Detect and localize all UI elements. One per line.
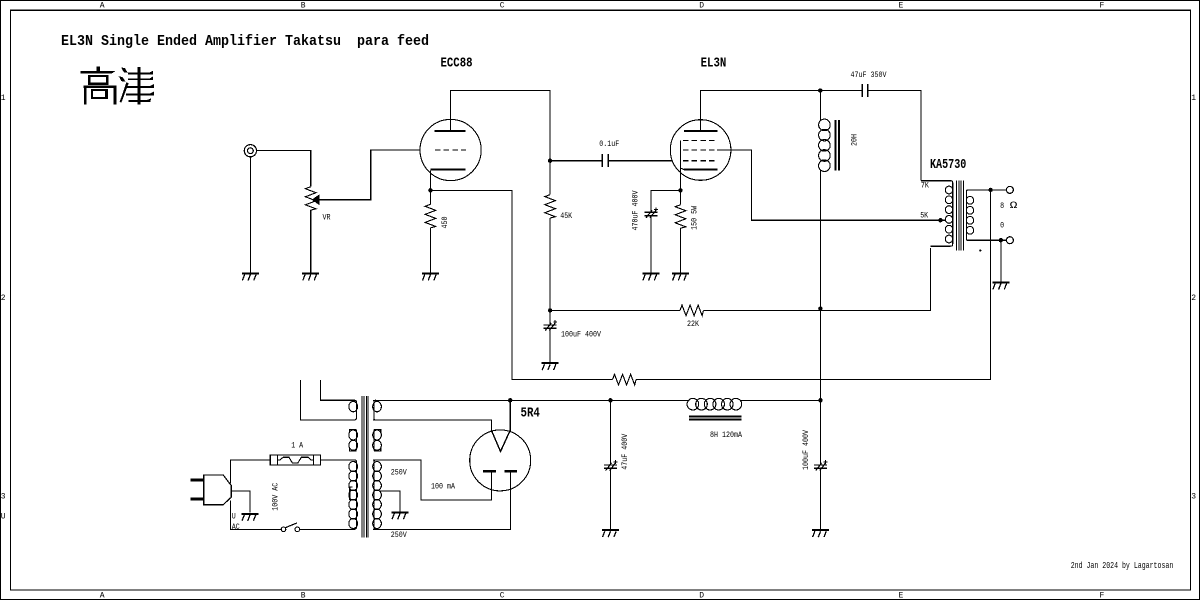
svg-text:E: E: [899, 592, 904, 600]
ground 470uF: [642, 272, 659, 274]
node OPT 8ohm: [988, 188, 992, 192]
capacitor 0.1uF coupling: [602, 154, 608, 167]
wire plug earth to ground: [231, 491, 250, 513]
svg-text:1: 1: [1191, 94, 1196, 103]
wire 22K node to 22K resistor: [550, 309, 680, 311]
tube 5R4 rectifier U3: [470, 430, 531, 491]
svg-text:AC: AC: [232, 523, 240, 532]
svg-text:100uF 400V: 100uF 400V: [561, 330, 601, 339]
output terminal 8 ohm: [1006, 186, 1013, 193]
power transformer primary winding: [354, 460, 356, 529]
node ECC88 plate coupling: [548, 159, 552, 163]
svg-text:8: 8: [1000, 202, 1004, 211]
mains plug: [191, 475, 232, 505]
svg-text:EL3N: EL3N: [701, 56, 727, 72]
node 22K right rail: [818, 306, 822, 310]
svg-text:F: F: [1100, 592, 1105, 600]
choke 20H parafeed: [819, 119, 839, 171]
svg-text:KA5730: KA5730: [930, 157, 966, 173]
tube EL3N U2: [670, 120, 731, 181]
svg-text:8H 120mA: 8H 120mA: [710, 431, 742, 440]
wire VR wiper to ECC88 grid: [319, 150, 421, 200]
node ECC88 cathode: [428, 188, 432, 192]
svg-text:0: 0: [1000, 221, 1004, 230]
svg-text:20H: 20H: [851, 134, 860, 146]
svg-text:2nd Jan 2024 by Lagartosan: 2nd Jan 2024 by Lagartosan: [1071, 561, 1174, 571]
svg-text:5R4: 5R4: [521, 406, 541, 422]
output transformer core: [957, 180, 964, 250]
capacitor 100uF 400V psu filter: [814, 460, 828, 471]
svg-text:A: A: [100, 1, 105, 10]
wire OPT 0ohm to ground: [1000, 240, 1002, 282]
svg-text:2: 2: [1191, 294, 1196, 303]
svg-text:450: 450: [441, 216, 450, 228]
wire switch to primary bottom: [300, 528, 355, 530]
svg-text:EL3N Single Ended Amplifier Ta: EL3N Single Ended Amplifier Takatsu para…: [61, 32, 429, 50]
input jack J1: [244, 145, 256, 157]
svg-text:VR: VR: [323, 213, 331, 222]
output transformer primary winding: [951, 181, 953, 247]
fuse 1A: [270, 455, 320, 465]
resistor 45K plate load: [545, 195, 556, 219]
node OPT 0ohm: [999, 238, 1003, 242]
svg-text:22K: 22K: [687, 320, 699, 329]
power transformer HV secondary winding: [374, 460, 376, 529]
wire 47uF400V to ground: [609, 400, 611, 530]
potentiometer VR resistor body: [305, 187, 316, 211]
ground 150 5W: [672, 272, 689, 274]
svg-text:A: A: [100, 592, 105, 600]
tube ECC88 U1: [420, 119, 481, 180]
wire node to 0.1uF left plate: [550, 160, 602, 162]
svg-text:0.1uF: 0.1uF: [599, 140, 619, 149]
ground 100uF 400V preamp: [542, 362, 559, 364]
wire VR bottom to ground: [310, 210, 312, 273]
node EL3N plate B+: [818, 88, 822, 92]
svg-text:C: C: [500, 592, 505, 600]
svg-text:B: B: [301, 1, 306, 10]
svg-text:3: 3: [1191, 493, 1196, 502]
ground 100uF 400V psu: [812, 529, 829, 531]
wire B+ rail: [373, 399, 821, 401]
ground OPT 0ohm: [992, 281, 1009, 283]
capacitor 47uF 350V parafeed: [862, 84, 867, 97]
wire plug neutral to switch: [231, 500, 282, 529]
svg-text:45K: 45K: [560, 212, 572, 221]
svg-text:5K: 5K: [920, 211, 928, 220]
svg-text:470uF 400V: 470uF 400V: [631, 190, 640, 230]
wire ECC88 cathode to 450 and feedback: [430, 171, 990, 380]
output transformer KA5730 T2: [921, 180, 974, 250]
wire OPT secondary 8ohm lead: [966, 189, 1006, 191]
svg-text:1: 1: [1, 94, 6, 103]
power transformer core: [362, 396, 368, 538]
power transformer primary tap link: [350, 487, 353, 499]
wire jack sleeve to ground: [249, 157, 251, 274]
wire plug line to fuse: [231, 460, 271, 484]
choke 8H 120mA psu: [687, 398, 742, 419]
ground plug earth: [241, 513, 258, 515]
wire 22K resistor to OPT primary bottom: [703, 248, 930, 310]
svg-text:100uF 400V: 100uF 400V: [802, 430, 811, 470]
ground HV center tap: [391, 511, 408, 513]
power transformer T1: [349, 396, 382, 538]
capacitor 47uF 400V psu filter: [604, 460, 618, 471]
resistor 450 cathode ECC88: [425, 204, 436, 228]
svg-text:D: D: [699, 1, 704, 10]
wire EL3N plate to B+ node: [701, 91, 821, 132]
wire 5R4 filament left lead: [373, 420, 492, 430]
wire heater winding lead B: [320, 380, 354, 400]
wire 5R4 filament right to B+: [509, 400, 511, 430]
power transformer unused winding left: [354, 429, 356, 451]
svg-text:ECC88: ECC88: [441, 56, 473, 72]
node 100uF400V tap: [818, 398, 822, 402]
wire 100uF400V cap to ground lead: [549, 328, 551, 363]
power transformer heater winding left: [354, 400, 356, 420]
node 5R4 filament B+: [508, 398, 512, 402]
svg-text:3: 3: [1, 493, 6, 502]
wire OPT secondary 0ohm lead: [966, 239, 1006, 241]
stray dot mark: [979, 249, 981, 251]
svg-text:7K: 7K: [921, 182, 929, 191]
node OPT 5K tap: [938, 218, 942, 222]
svg-text:47uF 400V: 47uF 400V: [621, 434, 630, 470]
capacitor 100uF 400V preamp filter: [544, 320, 558, 331]
resistor 150 5W EL3N cathode: [675, 205, 686, 229]
node 47uF400V tap: [608, 398, 612, 402]
svg-text:B: B: [301, 592, 306, 600]
svg-text:100 mA: 100 mA: [431, 483, 455, 492]
wire HV center tap to ground: [379, 491, 400, 512]
node 22K left: [548, 308, 552, 312]
capacitor 470uF 400V EL3N cathode bypass: [644, 207, 658, 218]
svg-text:2: 2: [1, 294, 6, 303]
resistor feedback: [613, 374, 637, 385]
svg-text:D: D: [699, 592, 704, 600]
node EL3N cathode: [678, 188, 682, 192]
wire 100uF400V psu to ground: [820, 400, 822, 530]
ground VR: [302, 272, 319, 274]
wire 0.1uF right plate to EL3N grid: [608, 160, 672, 162]
svg-text:250V: 250V: [391, 531, 407, 540]
wire heater winding lead A: [301, 380, 355, 420]
ground input jack: [242, 272, 259, 274]
svg-text:F: F: [1100, 1, 1105, 10]
svg-text:150 5W: 150 5W: [690, 206, 699, 230]
svg-text:E: E: [899, 1, 904, 10]
wire 5R4 right plate to HV bottom: [373, 471, 511, 529]
power switch: [281, 523, 299, 532]
wire jack to VR top: [257, 151, 311, 187]
wire EL3N cathode node leads: [651, 141, 685, 274]
svg-text:U: U: [232, 513, 236, 522]
power transformer unused winding right: [374, 429, 376, 451]
svg-text:100V AC: 100V AC: [272, 483, 281, 511]
wire 45K bottom to 22K node: [549, 218, 551, 325]
svg-text:1 A: 1 A: [291, 442, 303, 451]
wire 5R4 left plate to HV top: [373, 460, 492, 500]
output terminal 0 ohm: [1006, 237, 1013, 244]
wire choke 20H to supply rail: [819, 91, 821, 401]
wire ECC88 plate to node and 0.1uF: [451, 91, 550, 195]
wire EL3N screen to OPT 5K tap: [717, 150, 945, 220]
svg-text:Ω: Ω: [1010, 200, 1018, 212]
wire fuse to primary top: [321, 459, 355, 461]
kanji takatsu logo: [81, 67, 155, 105]
power transformer 5V winding right: [374, 400, 376, 420]
svg-text:C: C: [500, 1, 505, 10]
wire B+ node to 47uF350V and OPT 7K: [820, 91, 921, 181]
svg-text:250V: 250V: [391, 469, 407, 478]
svg-text:U: U: [1, 512, 6, 521]
ground 450 cathode: [422, 272, 439, 274]
output transformer secondary winding: [966, 190, 968, 240]
resistor 22K supply dropper: [680, 305, 704, 316]
ground 47uF 400V psu: [602, 529, 619, 531]
svg-text:47uF 350V: 47uF 350V: [851, 71, 887, 80]
